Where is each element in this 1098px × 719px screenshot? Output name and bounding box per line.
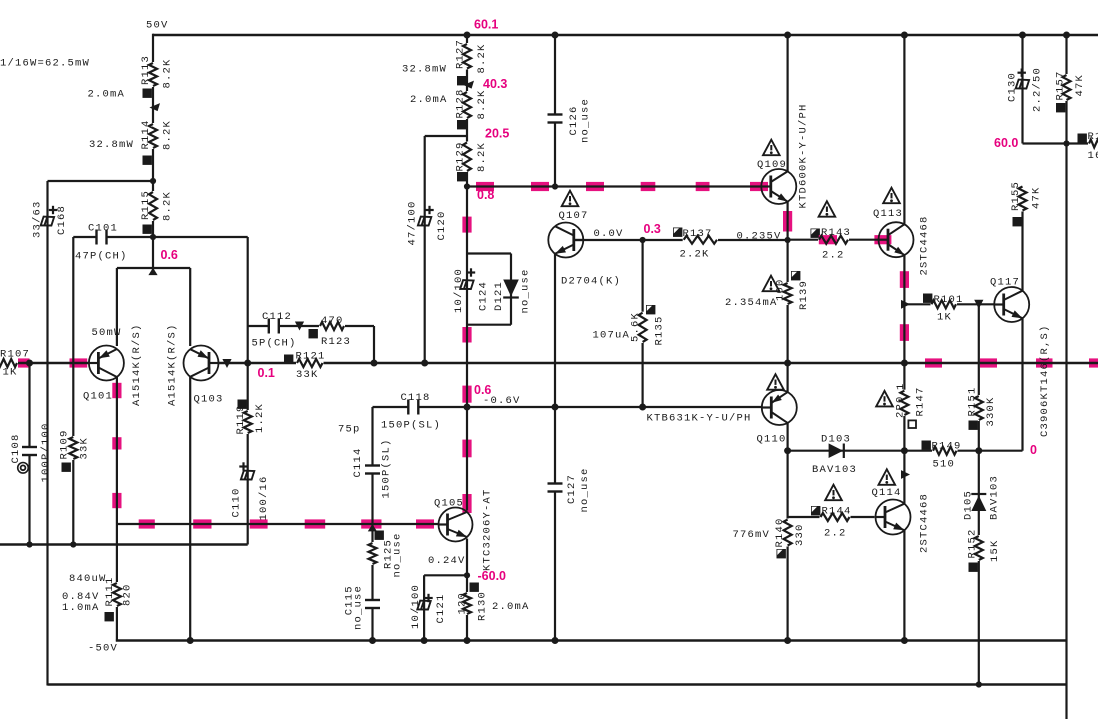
wire R119/C110 vertical <box>247 237 249 545</box>
svg-text:R127: R127 <box>454 39 466 69</box>
wire R157 vertical <box>1065 35 1067 719</box>
svg-text:-0.6V: -0.6V <box>483 395 521 407</box>
wire R114-R115 <box>152 148 154 192</box>
junction dots D103/R149 line <box>784 447 791 454</box>
diode D121 no_use <box>503 280 519 297</box>
svg-text:R113: R113 <box>140 55 152 85</box>
node arrow <box>901 300 910 309</box>
capacitor C168 33/63 <box>41 217 54 226</box>
wire: 50V corner down to R113 <box>152 34 154 64</box>
svg-text:R123: R123 <box>321 336 351 348</box>
svg-text:C130: C130 <box>1006 72 1018 102</box>
svg-text:no_use: no_use <box>352 585 364 630</box>
resistor R114 8.2K <box>148 123 158 149</box>
svg-text:5.6K: 5.6K <box>629 312 641 342</box>
svg-text:no_use: no_use <box>579 98 591 143</box>
svg-text:50V: 50V <box>146 20 169 32</box>
junction 0.8/R129 <box>464 183 470 189</box>
wire to C168 branch <box>48 180 154 182</box>
diode D103 BAV103 <box>829 443 844 458</box>
svg-text:776mV: 776mV <box>733 529 771 541</box>
svg-text:8.2K: 8.2K <box>161 58 173 88</box>
svg-text:no_use: no_use <box>519 268 531 313</box>
svg-text:0: 0 <box>1030 443 1037 457</box>
svg-text:R147: R147 <box>914 386 926 416</box>
wire C101 branch <box>73 236 153 238</box>
svg-text:R1: R1 <box>1088 131 1098 143</box>
svg-text:R140: R140 <box>774 517 786 547</box>
junction C101/R115 <box>150 234 156 240</box>
wire R125 vertical <box>371 524 373 601</box>
capacitor C101 47P(CH) <box>97 235 106 240</box>
svg-text:33K: 33K <box>296 369 319 381</box>
capacitor C110 100/16 <box>241 471 254 480</box>
transistor Q113 2STC4468 <box>879 222 914 257</box>
svg-text:R155: R155 <box>1010 181 1022 211</box>
wire C112/R123 branch <box>248 325 374 327</box>
wire Q103 collector <box>189 377 191 641</box>
capacitor C130 2.2/50 <box>1016 80 1029 89</box>
svg-text:C3906KT146(R,S): C3906KT146(R,S) <box>1039 324 1051 437</box>
resistor R155 47K <box>1017 186 1027 212</box>
svg-text:8.2K: 8.2K <box>476 43 488 73</box>
wire R151 vertical <box>978 304 980 451</box>
svg-text:R121: R121 <box>296 351 326 363</box>
capacitor C114 150P(SL) <box>370 466 375 473</box>
svg-text:1K: 1K <box>937 312 952 324</box>
svg-text:D121: D121 <box>493 281 505 311</box>
svg-text:2STC4468: 2STC4468 <box>918 493 930 553</box>
svg-text:D2704(K): D2704(K) <box>561 276 621 288</box>
svg-text:820: 820 <box>121 583 133 606</box>
wire highlight dashes: Q113 emitter <box>900 271 909 288</box>
resistor R135 5.6K <box>637 312 647 343</box>
resistor R111 820 <box>112 582 122 607</box>
svg-text:2STC4468: 2STC4468 <box>918 215 930 275</box>
svg-text:1K: 1K <box>3 367 18 379</box>
svg-text:0.3: 0.3 <box>644 222 661 236</box>
wire C108 vertical <box>28 363 30 545</box>
capacitor C124 10/100 <box>460 280 473 289</box>
svg-text:C118: C118 <box>401 392 431 404</box>
transistor Q110 KTB631K-Y-U/PH <box>762 390 797 425</box>
wire Q113 emitter <box>903 254 905 363</box>
node arrow C112 <box>295 322 304 331</box>
junction -60.0 node <box>464 572 470 578</box>
svg-text:33K: 33K <box>78 437 90 460</box>
svg-text:Q117: Q117 <box>990 277 1020 289</box>
svg-text:0.24V: 0.24V <box>428 555 466 567</box>
capacitor C127 no_use <box>553 484 558 491</box>
svg-text:C168: C168 <box>56 205 68 235</box>
svg-text:2.2K: 2.2K <box>680 249 710 261</box>
wire Q105 collector <box>466 407 468 511</box>
wire highlight dashes: 0.6 net vertical <box>462 217 471 233</box>
wire C120 vertical <box>424 136 426 363</box>
svg-text:C126: C126 <box>568 105 580 135</box>
transistor Q114 2STC4468 <box>876 500 911 535</box>
wire C118 segment <box>373 406 468 408</box>
svg-text:R107: R107 <box>0 349 30 361</box>
svg-text:Q114: Q114 <box>872 487 902 499</box>
transistor Q117 C3906KT146(R,S) <box>994 287 1029 322</box>
junction 0.8/C126 <box>552 183 558 189</box>
wire D121 vertical <box>510 254 512 325</box>
wire: emitter bracket <box>117 267 190 269</box>
svg-text:1.2K: 1.2K <box>254 403 266 433</box>
wire R135 vertical <box>641 240 643 407</box>
resistor R121 33K <box>296 358 324 368</box>
svg-text:8.2K: 8.2K <box>476 142 488 172</box>
resistor R119 1.2K <box>243 410 253 434</box>
svg-text:-50V: -50V <box>88 643 118 655</box>
svg-text:-60.0: -60.0 <box>478 569 507 583</box>
wire C124/D121 box top <box>467 252 511 254</box>
svg-text:0.1: 0.1 <box>258 366 275 380</box>
svg-text:A1514K(R/S): A1514K(R/S) <box>131 323 143 406</box>
wire Q107 emitter down <box>554 254 556 407</box>
capacitor C108 100P/100 <box>27 448 32 455</box>
wire R144 segment <box>788 516 875 518</box>
svg-text:C127: C127 <box>566 474 578 504</box>
wire C121 vertical <box>423 575 425 640</box>
svg-text:Q110: Q110 <box>757 434 787 446</box>
resistor R147 2P0 <box>899 390 909 416</box>
svg-text:15K: 15K <box>989 539 1001 562</box>
resistor R115 8.2K <box>148 191 158 221</box>
svg-text:R139: R139 <box>798 280 810 310</box>
svg-text:0.0V: 0.0V <box>594 228 624 240</box>
wire -50V rail <box>116 639 1067 642</box>
node arrow <box>901 470 910 479</box>
svg-text:R128: R128 <box>454 88 466 118</box>
transistor Q101 A1514K(R/S) <box>89 346 124 381</box>
svg-text:47K: 47K <box>1074 74 1086 97</box>
wire R143 segment <box>788 239 879 241</box>
svg-text:2.0mA: 2.0mA <box>492 601 530 613</box>
svg-text:R115: R115 <box>140 190 152 220</box>
wire R115 to emitter node <box>152 220 154 270</box>
svg-text:C120: C120 <box>436 210 448 240</box>
transistor Q103 A1514K(R/S) <box>184 346 219 381</box>
diode D105 BAV103 <box>971 493 986 495</box>
svg-text:no_use: no_use <box>579 467 591 512</box>
wire 20.5 stub to C120 <box>425 135 467 137</box>
svg-text:150P(SL): 150P(SL) <box>381 420 441 432</box>
capacitor C118 150P(SL) <box>409 405 418 410</box>
junction dots -0.6V line <box>464 404 471 411</box>
wire R101 segment <box>904 303 994 305</box>
svg-text:R101: R101 <box>934 294 964 306</box>
resistor R137 2.2K <box>683 235 718 245</box>
svg-text:2.2: 2.2 <box>824 528 847 540</box>
svg-text:R157: R157 <box>1054 70 1066 100</box>
svg-text:40.3: 40.3 <box>483 77 507 91</box>
wire: R127/R128/R129 chain <box>466 35 468 44</box>
wire highlight dash: Q109 emitter <box>783 211 792 232</box>
resistor R139 100 <box>782 282 792 305</box>
svg-text:0.6: 0.6 <box>161 248 178 262</box>
svg-text:D103: D103 <box>821 434 851 446</box>
resistor R140 330 <box>782 519 792 547</box>
svg-text:16: 16 <box>1088 150 1098 162</box>
resistor R123 470 <box>319 321 345 331</box>
junction dots top rail <box>464 32 471 39</box>
resistor R127 8.2K <box>462 43 472 70</box>
svg-text:0.8: 0.8 <box>477 188 494 202</box>
wire highlight dashes: 0.235V/base net near R143 and Q113 <box>819 235 837 244</box>
wire R139 vertical <box>786 240 788 363</box>
wire highlight dash under R143 <box>819 235 837 244</box>
svg-text:330: 330 <box>794 523 806 546</box>
wire to C121 <box>424 574 467 576</box>
svg-text:KTB631K-Y-U/PH: KTB631K-Y-U/PH <box>647 413 752 425</box>
junction 60.0 net <box>1063 140 1069 146</box>
wire R147 vertical <box>903 363 905 451</box>
resistor R152 15K <box>974 535 984 561</box>
wire Q101 collector <box>116 377 118 524</box>
svg-text:R135: R135 <box>653 315 665 345</box>
wire C115 bottom <box>371 608 373 641</box>
wire D105/R152 vertical <box>978 451 980 685</box>
svg-text:47P(CH): 47P(CH) <box>75 251 128 263</box>
transistor Q105 KTC3206Y-AT <box>439 508 473 542</box>
node arrow Q103 base <box>222 359 231 368</box>
svg-text:1: 1 <box>895 382 907 390</box>
svg-text:R152: R152 <box>966 528 978 558</box>
wire 0.0V/0.3/0.235V net <box>574 239 788 241</box>
resistor R125 no_use <box>367 542 377 565</box>
svg-text:8.2K: 8.2K <box>476 89 488 119</box>
wire second bottom rail <box>48 683 1067 686</box>
svg-text:2P0: 2P0 <box>894 395 906 418</box>
resistor R143 2.2 <box>818 235 849 245</box>
svg-text:Q103: Q103 <box>194 394 224 406</box>
resistor R129 8.2K <box>462 142 472 173</box>
svg-text:60.0: 60.0 <box>994 136 1018 150</box>
svg-text:10/100: 10/100 <box>410 584 422 629</box>
svg-text:KTC3206Y-AT: KTC3206Y-AT <box>481 488 493 571</box>
wire C130 vertical <box>1021 35 1023 144</box>
svg-text:Q101: Q101 <box>83 391 113 403</box>
svg-text:Q107: Q107 <box>559 210 589 222</box>
svg-text:D105: D105 <box>962 490 974 520</box>
node arrow emitter junction <box>148 268 157 275</box>
wire Q113 collector <box>903 35 905 225</box>
svg-text:C108: C108 <box>10 433 22 463</box>
svg-text:840uW: 840uW <box>69 573 107 585</box>
svg-text:C110: C110 <box>230 487 242 517</box>
junction Q109 emitter <box>785 237 791 243</box>
svg-text:R137: R137 <box>683 228 713 240</box>
svg-text:0.235V: 0.235V <box>737 231 782 243</box>
svg-text:8.2K: 8.2K <box>161 191 173 221</box>
wire Q114 collector <box>903 451 905 505</box>
resistor R149 510 <box>932 446 958 456</box>
svg-text:5P(CH): 5P(CH) <box>252 338 297 350</box>
svg-text:510: 510 <box>933 459 956 471</box>
svg-text:C112: C112 <box>262 311 292 323</box>
resistor R157 47K <box>1061 74 1071 101</box>
svg-text:107uA: 107uA <box>593 330 631 342</box>
svg-text:Q109: Q109 <box>757 159 787 171</box>
resistor R109 33K <box>68 436 78 460</box>
wire 0.6 net vertical <box>466 187 468 408</box>
svg-text:BAV103: BAV103 <box>988 475 1000 520</box>
wire highlight dashes: Q101 collector net <box>112 383 121 398</box>
junction C168 branch <box>150 178 156 184</box>
current arrow <box>149 103 160 111</box>
junction R109 <box>70 541 76 547</box>
wire C101/R109 vertical <box>72 237 74 545</box>
node arrow Q105 base junction <box>368 524 377 531</box>
svg-text:470: 470 <box>321 315 344 327</box>
wire Q110 emitter up <box>786 363 788 393</box>
svg-text:47/100: 47/100 <box>406 200 418 245</box>
resistor R113 8.2K <box>148 62 158 87</box>
wire Q114 emitter <box>903 531 905 641</box>
wire highlight dashes: main output net <box>17 358 30 367</box>
svg-text:C101: C101 <box>88 223 118 235</box>
resistor R1xx edge <box>1088 138 1098 148</box>
transistor Q107 D2704(K) <box>548 223 583 258</box>
svg-text:A1514K(R/S): A1514K(R/S) <box>167 323 179 406</box>
wire C126 vertical <box>554 35 556 187</box>
svg-text:R119: R119 <box>235 404 247 434</box>
svg-text:R144: R144 <box>822 506 852 518</box>
wire highlight dashes: Q105 base net <box>139 519 155 528</box>
svg-text:150P(SL): 150P(SL) <box>380 438 392 498</box>
svg-text:KTD600K-Y-U/PH: KTD600K-Y-U/PH <box>797 103 809 208</box>
wire C168 vertical <box>46 181 48 686</box>
wire Q105 base net <box>117 523 438 525</box>
wire: +50V top rail <box>153 34 1098 37</box>
svg-text:32.8mW: 32.8mW <box>402 64 447 76</box>
capacitor C115 no_use <box>370 601 375 608</box>
junction C108 <box>26 541 32 547</box>
resistor R101 1K <box>931 299 958 309</box>
svg-text:Q105: Q105 <box>434 498 464 510</box>
svg-text:120: 120 <box>456 592 468 615</box>
svg-text:20.5: 20.5 <box>485 127 509 141</box>
svg-text:100/16: 100/16 <box>258 475 270 520</box>
wire 60.0 net <box>1023 142 1098 144</box>
wire: main output rail <box>0 362 89 365</box>
svg-text:1/16W=62.5mW: 1/16W=62.5mW <box>0 58 90 70</box>
resistor R130 120 <box>462 592 472 615</box>
svg-text:60.1: 60.1 <box>474 18 498 32</box>
svg-text:BAV103: BAV103 <box>812 464 857 476</box>
svg-text:100P/100: 100P/100 <box>40 422 52 482</box>
node arrow R101 right <box>974 300 983 309</box>
resistor R107 1K <box>0 358 18 368</box>
svg-text:32.8mW: 32.8mW <box>89 139 134 151</box>
junction dots main rail <box>26 360 33 367</box>
wire -0.6V net <box>467 406 762 408</box>
svg-text:1.0mA: 1.0mA <box>62 602 100 614</box>
capacitor C120 47/100 <box>418 217 431 226</box>
junction dots -50V rail <box>187 637 194 644</box>
capacitor C121 10/100 <box>417 601 430 610</box>
svg-text:33/63: 33/63 <box>32 200 44 238</box>
wire C124/D121 box bottom <box>467 324 511 326</box>
svg-text:R151: R151 <box>966 386 978 416</box>
wire R111 top <box>116 524 118 583</box>
junction 0.3/R135 <box>640 237 646 243</box>
capacitor C126 no_use <box>553 115 558 122</box>
C108 probe ring <box>18 463 29 474</box>
svg-text:2.0mA: 2.0mA <box>410 94 448 106</box>
resistor R151 330K <box>974 395 984 421</box>
wire highlight dashes: 0.8 net <box>476 182 494 191</box>
svg-text:C121: C121 <box>435 593 447 623</box>
svg-text:Q113: Q113 <box>873 208 903 220</box>
wire ground-side line <box>0 543 248 546</box>
wire Q109 collector <box>786 35 788 172</box>
current arrow <box>463 81 474 89</box>
wire 0.8 net <box>467 185 761 187</box>
svg-text:47K: 47K <box>1030 186 1042 209</box>
svg-text:50mW: 50mW <box>92 327 122 339</box>
transistor Q109 KTD600K-Y-U/PH <box>761 169 796 204</box>
wire C127 vertical <box>554 407 556 641</box>
capacitor C112 5P(CH) <box>269 324 278 329</box>
svg-text:2.2: 2.2 <box>822 250 845 262</box>
wire D103/R149/0 net <box>788 450 1023 452</box>
wire R111 bottom <box>116 606 118 642</box>
wire Q109 emitter <box>786 202 788 241</box>
svg-text:8.2K: 8.2K <box>161 120 173 150</box>
wire Q117 collector / R155 <box>1021 211 1023 292</box>
svg-text:R114: R114 <box>140 119 152 149</box>
svg-text:C124: C124 <box>477 281 489 311</box>
svg-text:R130: R130 <box>476 591 488 621</box>
junction R152 bottom <box>976 681 982 687</box>
svg-text:10/100: 10/100 <box>453 268 465 313</box>
resistor R144 2.2 <box>820 512 851 522</box>
wire R113-R114 <box>152 87 154 124</box>
wire Q110 collector down <box>786 423 788 641</box>
svg-text:R129: R129 <box>454 141 466 171</box>
wire Q117 emitter down <box>1021 319 1023 451</box>
svg-text:C114: C114 <box>352 447 364 477</box>
wire R123 down <box>373 326 375 363</box>
wire Q105 emitter / R130 <box>466 539 468 641</box>
svg-text:no_use: no_use <box>391 532 403 577</box>
wire C101 top link <box>153 236 248 238</box>
svg-text:R109: R109 <box>58 429 70 459</box>
svg-text:2.354mA: 2.354mA <box>725 297 778 309</box>
svg-text:2.2/50: 2.2/50 <box>1031 67 1043 112</box>
wire C114 vertical <box>371 407 373 524</box>
svg-text:2.0mA: 2.0mA <box>88 89 126 101</box>
resistor R128 8.2K <box>462 91 472 119</box>
svg-text:R149: R149 <box>932 441 962 453</box>
svg-text:330K: 330K <box>985 396 997 426</box>
svg-text:75p: 75p <box>338 424 361 436</box>
